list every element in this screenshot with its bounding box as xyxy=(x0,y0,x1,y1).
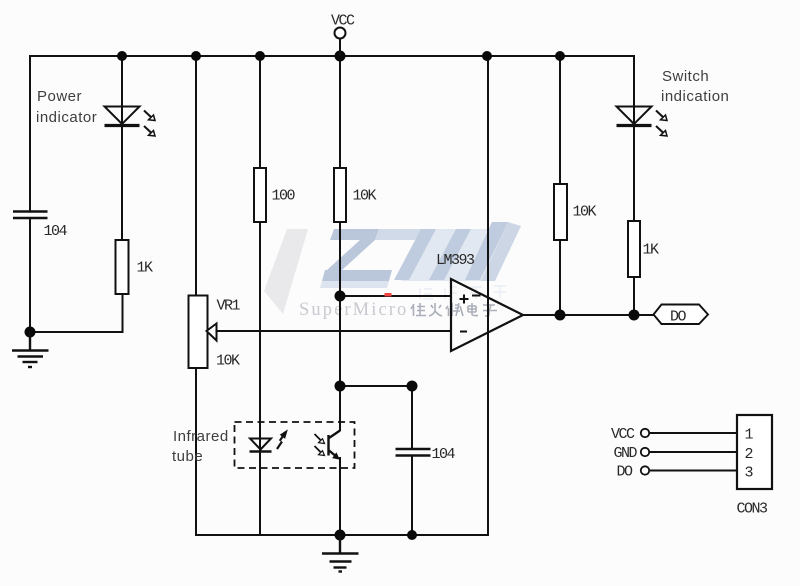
svg-text:Infrared: Infrared xyxy=(173,428,229,445)
svg-text:SuperMicro: SuperMicro xyxy=(299,300,408,320)
svg-text:104: 104 xyxy=(44,223,68,240)
svg-text:2: 2 xyxy=(745,446,753,463)
svg-text:indicator: indicator xyxy=(36,109,97,126)
svg-text:DO: DO xyxy=(670,309,687,326)
svg-text:LM393: LM393 xyxy=(436,252,475,269)
svg-text:VCC: VCC xyxy=(331,13,355,30)
svg-text:tube: tube xyxy=(172,448,203,465)
svg-text:10K: 10K xyxy=(353,188,377,205)
svg-text:Power: Power xyxy=(37,88,82,105)
svg-text:1K: 1K xyxy=(643,242,660,259)
svg-text:1K: 1K xyxy=(137,260,154,277)
svg-text:CON3: CON3 xyxy=(737,501,769,518)
svg-text:indication: indication xyxy=(661,88,729,105)
svg-text:VCC: VCC xyxy=(611,426,635,443)
svg-text:Switch: Switch xyxy=(662,68,709,85)
svg-text:GND: GND xyxy=(614,445,638,462)
svg-text:10K: 10K xyxy=(573,204,597,221)
svg-text:VR1: VR1 xyxy=(217,298,241,315)
svg-text:100: 100 xyxy=(272,188,296,205)
svg-text:DO: DO xyxy=(617,464,634,481)
svg-text:104: 104 xyxy=(432,446,456,463)
svg-text:10K: 10K xyxy=(216,353,240,370)
